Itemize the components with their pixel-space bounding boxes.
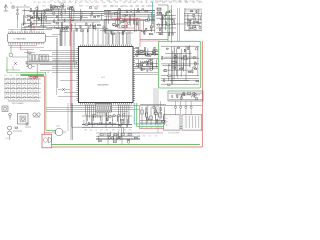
- label row top: [33, 2, 203, 4]
- memory / micro parts top right: [184, 9, 202, 31]
- svg-text:Q07: Q07: [104, 6, 107, 8]
- svg-text:1SS: 1SS: [140, 127, 143, 129]
- bottom labels: [125, 136, 157, 138]
- deflection block outline (green): [159, 41, 201, 88]
- wire (red): [21, 25, 23, 32]
- svg-text:VR1: VR1: [178, 1, 181, 3]
- svg-text:D21: D21: [151, 1, 154, 3]
- CRT label: [168, 133, 180, 135]
- svg-text:C905: C905: [5, 138, 9, 140]
- svg-text:D21: D21: [136, 6, 139, 8]
- svg-text:100: 100: [90, 130, 93, 132]
- jack J901: [2, 106, 8, 112]
- tuner AGC area parts: [22, 9, 52, 30]
- bus bar (shielded): [26, 62, 77, 64]
- top right small parts: [156, 10, 176, 36]
- svg-text:R33: R33: [16, 75, 19, 77]
- wires x52-62 upper: [46, 22, 62, 46]
- wire bus h5: [44, 21, 100, 23]
- keyboard red part: [34, 77, 36, 79]
- tuner small parts: [16, 9, 18, 20]
- wire bus h7: [46, 28, 108, 30]
- labels below IC: [84, 130, 132, 132]
- IF amp components: [33, 6, 104, 22]
- CRT drive resistor ladders: [141, 107, 166, 125]
- wire AGC (green): [17, 7, 19, 28]
- mid labels: [104, 5, 155, 8]
- red/green pair to CRT board: [45, 75, 46, 135]
- svg-text:0.1: 0.1: [36, 22, 38, 24]
- CRT pcb connector box: [168, 91, 203, 101]
- svg-text:CRT SOCKET: CRT SOCKET: [168, 133, 180, 135]
- micro block outline: [185, 11, 202, 30]
- svg-text:5.6: 5.6: [10, 75, 12, 77]
- op IC main M52309SP body: [79, 47, 134, 103]
- svg-text:C77: C77: [33, 2, 36, 4]
- svg-text:Q07: Q07: [198, 1, 201, 3]
- chroma components right of IC row2: [135, 59, 158, 72]
- wire (green) from IC201: [7, 44, 46, 74]
- wires from main IC bottom: [86, 105, 129, 129]
- svg-text:IC TA8690AN: IC TA8690AN: [14, 37, 27, 40]
- wire (red) inside deflection: [171, 46, 173, 70]
- IF/SIF stage: [104, 8, 155, 35]
- vertical pair bottom left-mid: [68, 103, 72, 140]
- resistor R115: [24, 52, 35, 53]
- main IC left pins: [77, 49, 79, 101]
- main IC bottom pins: [81, 103, 132, 105]
- wire: [6, 66, 20, 70]
- wire (red) vertical: [36, 64, 38, 75]
- LED D901: [9, 113, 12, 120]
- svg-text:SAW: SAW: [120, 5, 124, 8]
- electrolytic C905: [5, 126, 12, 140]
- svg-text:TP2: TP2: [110, 6, 113, 8]
- svg-text:33P: 33P: [159, 127, 162, 129]
- antenna symbol: [4, 5, 9, 12]
- wire below IC201: [10, 46, 44, 48]
- wire bus h2: [37, 13, 120, 15]
- svg-text:0.1: 0.1: [85, 5, 88, 7]
- svg-text:5.6: 5.6: [89, 1, 91, 3]
- ladder labels: [140, 127, 168, 129]
- svg-text:C45: C45: [184, 1, 187, 3]
- wire (red) IF supply: [57, 19, 111, 21]
- svg-text:100: 100: [57, 1, 60, 3]
- wires into main IC left lower: [58, 81, 77, 97]
- svg-text:VR1: VR1: [42, 5, 46, 7]
- wire: [12, 56, 28, 58]
- main IC top pins: [81, 45, 132, 47]
- wire (green) h top: [140, 38, 168, 40]
- wire (red) main B+: [70, 105, 202, 107]
- wires into main IC left: [40, 51, 77, 73]
- svg-text:D21: D21: [23, 22, 26, 24]
- label row far right top: [158, 1, 201, 3]
- svg-text:473: 473: [125, 136, 128, 138]
- gray pair: [178, 8, 180, 41]
- svg-text:Q902: Q902: [56, 126, 60, 128]
- wire bus h4: [30, 17, 88, 19]
- wire bus h1: [37, 11, 111, 13]
- label row top2: [36, 4, 152, 7]
- svg-text:222: 222: [146, 6, 149, 8]
- wire bus h3: [33, 15, 104, 17]
- small parts: [13, 123, 31, 131]
- speaker wires (green/red): [52, 145, 203, 147]
- svg-text:1452: 1452: [165, 125, 169, 127]
- wire (green) to CRT: [137, 103, 201, 126]
- main IC right pins: [133, 49, 135, 101]
- wire: [104, 32, 133, 34]
- svg-text:VR1: VR1: [115, 6, 118, 8]
- svg-text:TP2: TP2: [113, 1, 116, 3]
- capacitor C2: [21, 23, 26, 26]
- wires into main IC top right half: [106, 30, 130, 44]
- tuner IF cluster: [50, 3, 66, 10]
- wire (pink) to CRT: [140, 106, 203, 129]
- wire (red) video: [70, 20, 72, 106]
- wire h below IC 3: [46, 111, 128, 113]
- CRT pcb parts: [169, 92, 202, 100]
- wire (red) h top: [140, 40, 160, 42]
- wires into main IC top: [60, 14, 128, 47]
- ceramic filter: [33, 113, 40, 117]
- svg-text:M52309SP: M52309SP: [98, 85, 109, 87]
- svg-text:SAW: SAW: [79, 4, 83, 7]
- spark gaps: [174, 101, 192, 115]
- IC201 top pins: [8, 30, 44, 34]
- wire: [16, 6, 25, 8]
- wire bus h6: [40, 25, 96, 27]
- svg-text:C77: C77: [94, 1, 97, 3]
- wire (teal): [152, 2, 154, 20]
- bottom mid parts: [100, 134, 131, 136]
- below keypad labels: [4, 74, 42, 77]
- tuner input components: [10, 3, 15, 9]
- svg-text:5.6: 5.6: [149, 136, 151, 138]
- wire (red): [33, 20, 35, 32]
- video stage components: [51, 22, 106, 32]
- bottom mid wire: [96, 133, 140, 145]
- svg-text:C77: C77: [145, 1, 148, 3]
- svg-text:TP2: TP2: [156, 59, 159, 61]
- wire (red) SDA: [171, 5, 173, 43]
- wire (red) h: [75, 13, 111, 15]
- svg-text:R33: R33: [30, 22, 33, 24]
- IC201 label: [14, 37, 27, 40]
- svg-text:222: 222: [136, 59, 139, 61]
- svg-text:TP2: TP2: [43, 2, 46, 4]
- CRT ladder area parts: [140, 105, 166, 125]
- wire drops to IC1: [12, 26, 31, 33]
- wire (red) branch: [21, 44, 35, 67]
- gray verticals: [57, 30, 75, 95]
- svg-text:KEY BOARD: KEY BOARD: [12, 102, 24, 105]
- wire (red) v: [110, 14, 112, 19]
- svg-text:5.6: 5.6: [155, 127, 157, 129]
- bus label: [30, 59, 61, 62]
- keyboard base line: [8, 100, 40, 102]
- right mid labels: [136, 59, 159, 61]
- svg-text:100: 100: [118, 130, 121, 132]
- wire (green) SCL: [167, 5, 169, 41]
- svg-text:C77: C77: [75, 1, 78, 3]
- wires right of IC: [135, 73, 158, 75]
- speaker connector (red) CN902: [42, 134, 52, 148]
- small parts under green wire: [30, 72, 50, 79]
- focus pack inner: [186, 116, 199, 128]
- svg-text:222: 222: [32, 75, 35, 77]
- svg-text:1SS: 1SS: [151, 59, 154, 61]
- node B+: [24, 5, 30, 7]
- wire (teal) to CRT: [134, 103, 163, 124]
- wire h below IC: [46, 107, 133, 109]
- trap filter block: [29, 55, 48, 62]
- reset circuit: [157, 5, 168, 17]
- audio bottom mid parts: [96, 128, 140, 143]
- keyboard matrix SW901-SW930: [4, 78, 41, 100]
- svg-text:B+: B+: [73, 5, 75, 7]
- wire (red) right side: [201, 41, 203, 147]
- svg-text:Q07: Q07: [4, 75, 7, 77]
- wire (red) to IC1 pin: [30, 20, 32, 32]
- keyboard label: [12, 102, 24, 105]
- wire (purple): [71, 24, 73, 127]
- svg-text:473: 473: [100, 130, 103, 132]
- svg-text:0.1: 0.1: [41, 22, 43, 24]
- transistor Q201: [26, 65, 35, 69]
- wires to CRT board: [154, 88, 161, 133]
- svg-text:VR1: VR1: [84, 130, 87, 132]
- wire (red) h2: [111, 18, 140, 20]
- transistor Q902: [52, 126, 66, 136]
- audio pair wires: [45, 130, 55, 133]
- wire (red) IC201 supply: [9, 43, 37, 46]
- wire (red) v: [139, 19, 141, 48]
- wire (red) h3: [118, 27, 135, 29]
- IC201 bottom pins: [9, 43, 43, 45]
- diode D205: [14, 62, 17, 65]
- wire (red): [28, 75, 45, 77]
- diode D302: [58, 88, 70, 91]
- tuner labels: [23, 22, 43, 24]
- parts below IC: [82, 113, 132, 127]
- resistor network RN1: [96, 104, 112, 113]
- svg-text:0.1: 0.1: [67, 5, 70, 7]
- svg-text:C77: C77: [80, 1, 83, 3]
- IC IC201 jungle (rounded): [8, 33, 46, 42]
- IF transformer T101: [18, 114, 29, 125]
- deflection components: [161, 45, 199, 86]
- wire: [100, 30, 128, 32]
- label row top1b: [50, 0, 198, 3]
- wire (red) v2: [126, 19, 128, 29]
- wire h below IC 2: [46, 109, 140, 111]
- green jumper bar: [21, 74, 45, 76]
- wire (purple) across: [72, 127, 163, 133]
- svg-text:473: 473: [155, 136, 158, 138]
- svg-text:SAW: SAW: [37, 59, 41, 62]
- main IC name: [98, 77, 109, 87]
- svg-text:C77: C77: [50, 1, 53, 3]
- chroma components right of IC: [135, 47, 158, 57]
- wire: [172, 8, 200, 30]
- svg-text:TP2: TP2: [100, 1, 103, 3]
- focus pack: [164, 115, 202, 130]
